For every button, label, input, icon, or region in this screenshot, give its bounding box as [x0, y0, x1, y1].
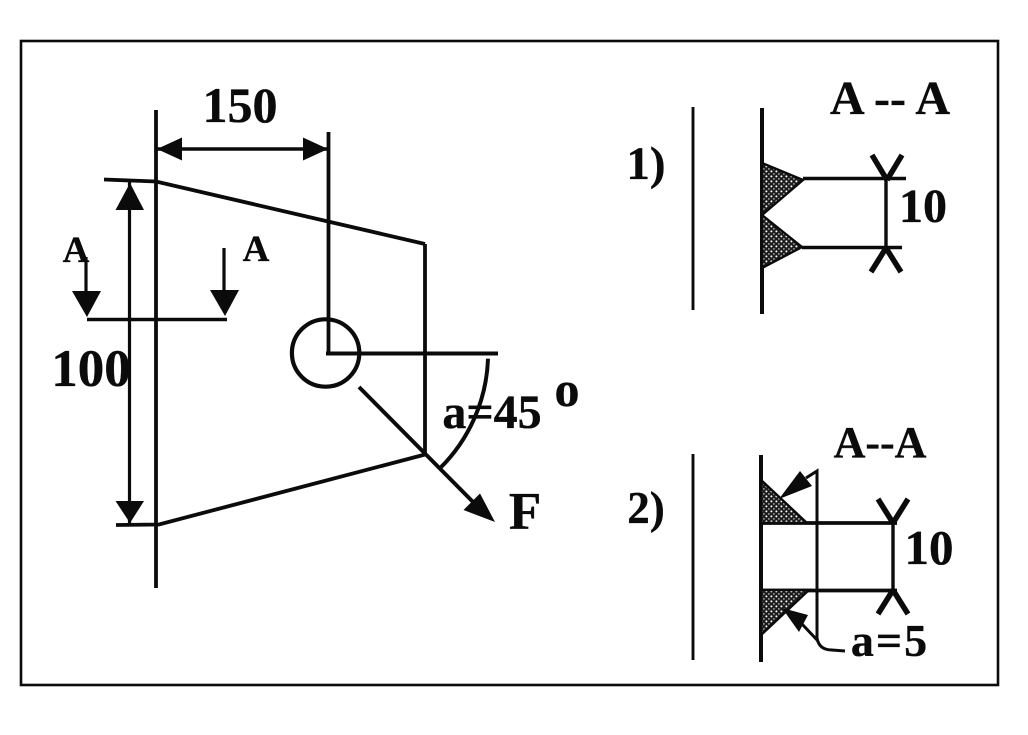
view 1 lower weld triangle	[762, 215, 802, 268]
view 2 leader lower segment	[802, 624, 818, 641]
svg-text:1): 1)	[626, 138, 665, 190]
dimension 150 extension line	[327, 132, 331, 355]
force F line	[359, 387, 478, 507]
view 2 upper weld triangle	[761, 480, 807, 523]
view 2 dimension 10 line	[891, 523, 894, 590]
svg-text:150: 150	[203, 77, 278, 133]
view 1 dimension bottom tick	[871, 248, 901, 272]
view 2 lower plate line	[761, 589, 897, 593]
hole circle	[292, 319, 359, 386]
svg-text:10: 10	[899, 180, 947, 233]
svg-text:F: F	[509, 483, 541, 541]
section connector line	[87, 318, 227, 321]
view 2 leader line	[806, 471, 845, 651]
force F arrowhead	[464, 494, 496, 523]
reference horizontal line	[326, 352, 498, 356]
dimension 100 top arrow	[116, 183, 145, 210]
view 1 dimension top tick	[872, 155, 902, 180]
view 2 dimension top tick	[878, 499, 908, 523]
svg-text:10: 10	[905, 520, 954, 575]
view 1 upper weld surface line	[803, 177, 906, 181]
dimension 150 left arrow	[157, 138, 182, 161]
section arrow A right	[222, 248, 225, 291]
view 1 upper weld triangle	[762, 163, 803, 215]
svg-text:a=5: a=5	[851, 615, 929, 666]
view 2 main vertical line	[759, 455, 763, 662]
dimension 100 line	[128, 182, 131, 523]
dimension 150 line	[156, 147, 329, 150]
view 2 leader lower arrowhead	[782, 608, 808, 632]
svg-text:100: 100	[51, 340, 131, 398]
section arrow A left	[84, 257, 87, 292]
svg-text:o: o	[555, 361, 580, 417]
view 1 lower weld surface line	[802, 246, 902, 250]
svg-text:A: A	[243, 229, 270, 270]
plate right edge	[423, 244, 427, 455]
view 2 dimension bottom tick	[878, 590, 908, 614]
dimension 150 right arrow	[303, 138, 328, 161]
view 2 lower weld triangle	[761, 590, 809, 635]
view 2 leader upper arrowhead	[779, 471, 812, 499]
svg-text:a=45: a=45	[442, 386, 541, 439]
view 1 main vertical line	[760, 108, 764, 314]
view 1 dimension 10 line	[884, 180, 887, 247]
view 2 upper plate line	[761, 521, 897, 525]
svg-text:A--A: A--A	[834, 418, 927, 467]
plate left edge	[154, 110, 158, 588]
view 1 left thin line	[692, 107, 695, 310]
plate bottom edge	[116, 454, 427, 525]
svg-text:2): 2)	[627, 483, 665, 533]
svg-text:A -- A: A -- A	[830, 72, 950, 125]
angle arc	[440, 359, 488, 469]
plate top edge	[104, 180, 425, 245]
dimension 100 bottom arrow	[116, 501, 145, 523]
view 2 left thin line	[692, 454, 695, 660]
